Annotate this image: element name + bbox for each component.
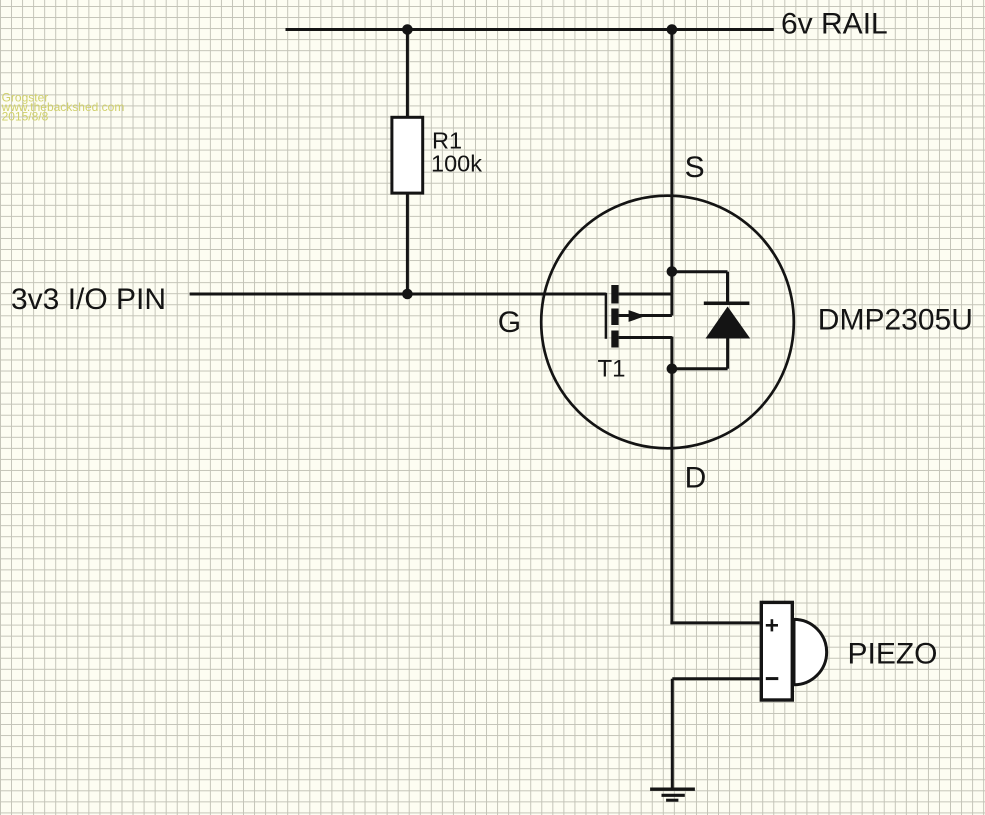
source horizontal stub (619, 293, 672, 296)
wire source vertical (rail to mosfet) (670, 30, 673, 316)
svg-text:3v3 I/O PIN: 3v3 I/O PIN (11, 283, 166, 316)
wire to ground (671, 679, 674, 790)
svg-text:G: G (498, 306, 521, 339)
svg-text:PIEZO: PIEZO (848, 637, 938, 670)
diode cathode bar (704, 302, 750, 306)
resistor R1 (392, 117, 423, 193)
wire drain vertical (mosfet to piezo) (670, 337, 673, 625)
piezo body box (761, 602, 792, 700)
body horizontal stub (619, 314, 672, 317)
wire diode top lead (672, 270, 728, 273)
wire diode cathode vertical (726, 272, 729, 304)
ground symbol (650, 789, 695, 800)
channel bar top (611, 285, 618, 304)
svg-text:S: S (685, 151, 705, 184)
svg-text:DMP2305U: DMP2305U (818, 304, 973, 337)
svg-text:T1: T1 (598, 356, 626, 383)
junction dot gate/R1 (402, 289, 413, 300)
wire R1 top lead (406, 30, 409, 118)
piezo dome (794, 619, 827, 684)
gate plate vertical (605, 293, 608, 339)
wire 3v3 I/O PIN to gate (190, 293, 606, 296)
junction dot rail/T1 source (667, 24, 678, 35)
channel bar bottom (611, 331, 618, 348)
body arrow (629, 310, 646, 322)
channel bar middle (611, 309, 618, 326)
wire piezo plus lead (670, 621, 759, 624)
watermark Grogster (1, 90, 125, 123)
junction dot rail/R1 (402, 24, 413, 35)
piezo plus sign (766, 619, 778, 631)
wire piezo minus lead (672, 677, 759, 680)
transistor T1 body circle (541, 196, 794, 449)
junction dot source/diode (667, 266, 678, 277)
wire: 6v rail horizontal (286, 28, 774, 31)
svg-text:2015/8/8: 2015/8/8 (2, 110, 49, 124)
wire diode bottom lead (672, 367, 728, 370)
svg-text:100k: 100k (431, 150, 482, 176)
junction dot drain/diode (667, 364, 678, 375)
wire diode anode vertical (726, 339, 729, 369)
piezo minus sign (766, 677, 779, 680)
drain horizontal stub (619, 336, 672, 339)
svg-text:D: D (685, 461, 707, 494)
svg-text:6v RAIL: 6v RAIL (781, 8, 888, 41)
diode triangle (body diode) (706, 307, 751, 339)
wire R1 bottom lead (406, 194, 409, 294)
